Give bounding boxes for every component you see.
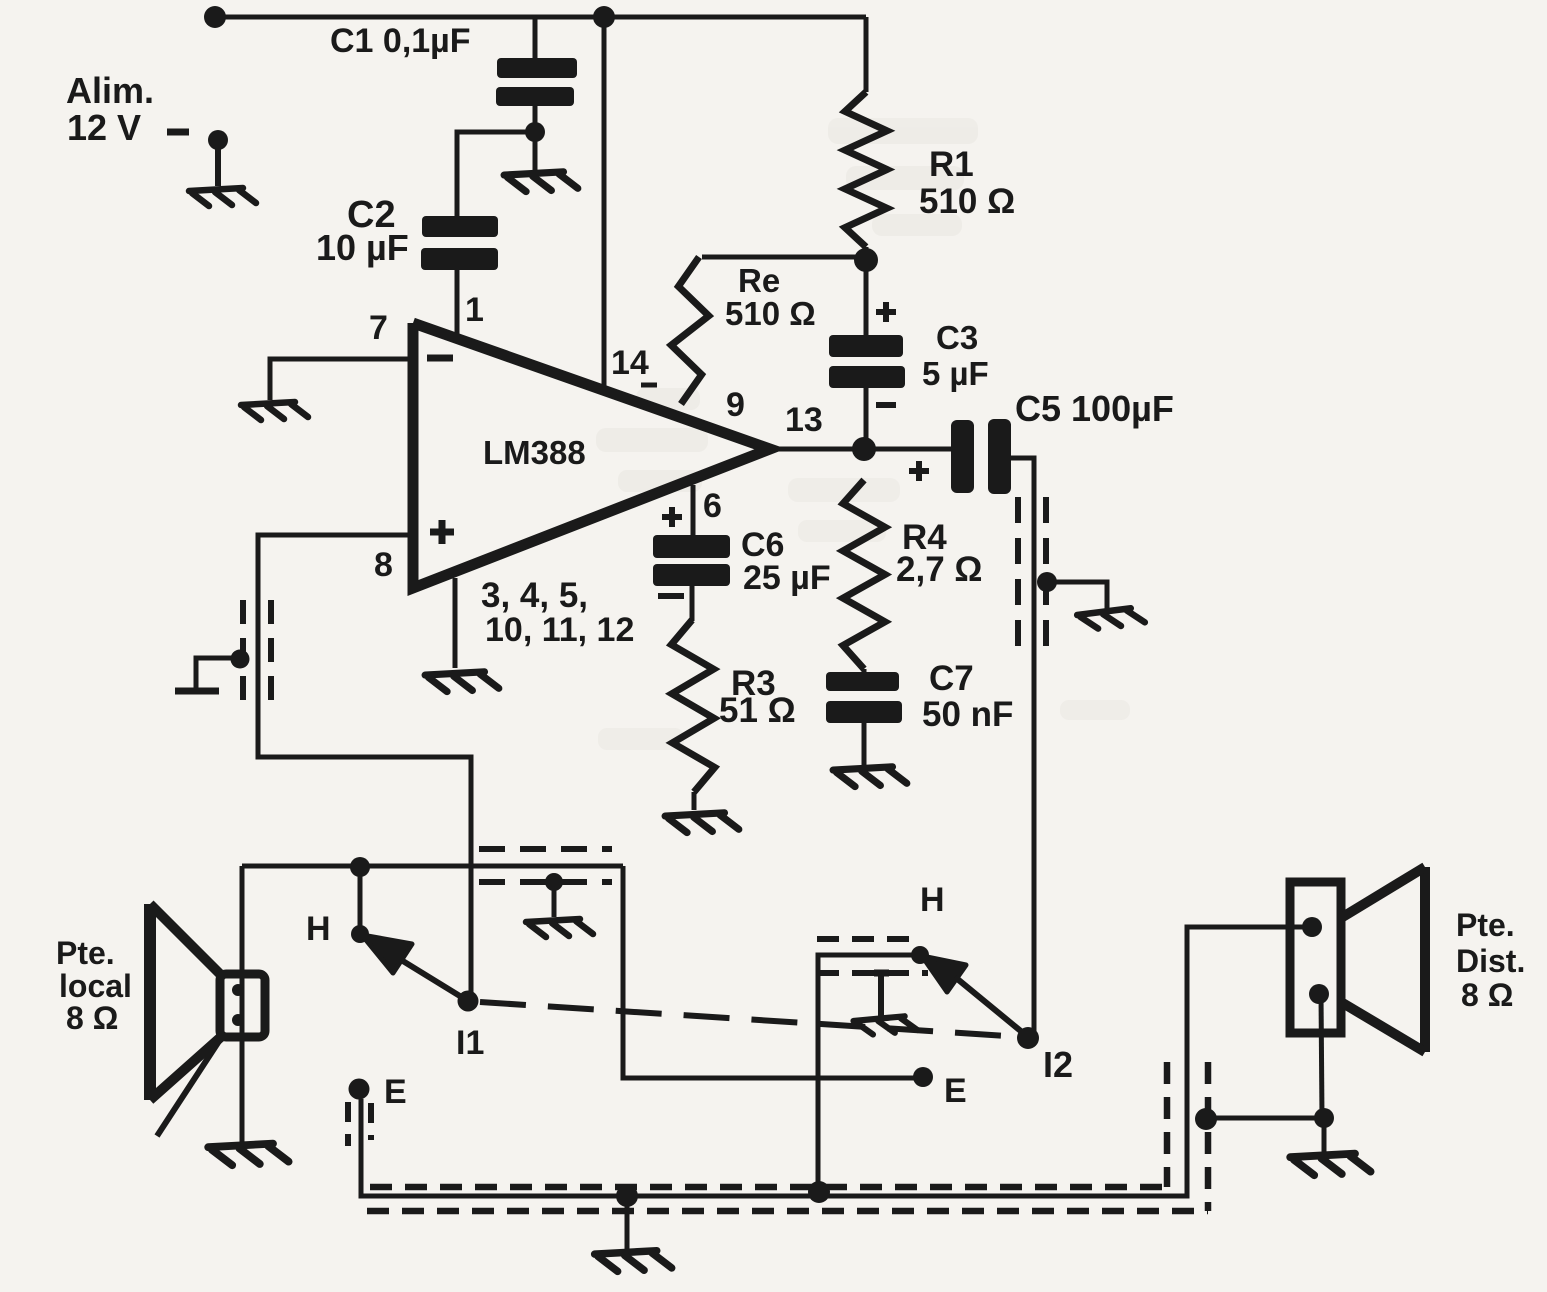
svg-text:Pte.: Pte. <box>56 935 115 971</box>
diagonal lead (left speaker) <box>157 1032 225 1136</box>
svg-text:Re: Re <box>738 262 780 299</box>
ground (C1) <box>504 172 578 192</box>
shield dashes (C5 cable) <box>1015 497 1021 648</box>
wire C1 to C2 <box>457 132 535 217</box>
svg-text:2,7 Ω: 2,7 Ω <box>896 550 982 589</box>
speaker rail <box>242 864 623 869</box>
svg-text:I2: I2 <box>1043 1044 1073 1085</box>
capacitor C2 <box>422 216 498 237</box>
svg-text:C1 0,1µF: C1 0,1µF <box>330 22 471 60</box>
terminal E (left) <box>349 1079 370 1100</box>
wire right speaker bottom <box>1321 994 1322 1118</box>
resistor R1 <box>864 17 869 92</box>
resistor Re <box>671 257 709 404</box>
svg-text:I1: I1 <box>456 1024 484 1062</box>
wire pin 1 <box>455 270 460 342</box>
svg-text:Dist.: Dist. <box>1456 943 1525 979</box>
ground bus cable <box>361 927 1312 1196</box>
wire rail to E row <box>623 866 923 1078</box>
svg-text:51 Ω: 51 Ω <box>719 691 796 730</box>
ground (pins 3..12) <box>425 672 499 692</box>
resistor R3 <box>671 620 714 792</box>
svg-text:E: E <box>944 1072 967 1110</box>
op-amp U1 LM388 <box>413 323 770 588</box>
svg-text:9: 9 <box>726 386 745 424</box>
ground (C7) <box>833 767 907 787</box>
dashed link I1 to I2 <box>480 1002 1022 1037</box>
svg-text:LM388: LM388 <box>483 434 586 471</box>
shield ground tap (C5 cable) <box>1037 572 1057 592</box>
terminal + (Alim) <box>204 6 226 28</box>
svg-text:C3: C3 <box>936 319 978 356</box>
power rail +12V <box>215 15 866 20</box>
svg-text:5 µF: 5 µF <box>922 355 989 392</box>
svg-text:10, 11, 12: 10, 11, 12 <box>485 611 634 649</box>
terminal E (right) <box>913 1067 933 1087</box>
junction + ground (right speaker) <box>1314 1108 1334 1128</box>
wire left speaker to ground <box>240 866 245 1142</box>
shield ground tap (rail right) <box>545 873 563 891</box>
speaker Pte. Dist. <box>1290 882 1341 1033</box>
svg-text:510 Ω: 510 Ω <box>919 182 1015 221</box>
svg-text:C5 100µF: C5 100µF <box>1015 388 1174 429</box>
junction (speaker / shield) <box>1195 1108 1217 1130</box>
wire pin 8 <box>258 535 471 998</box>
stray mark <box>641 383 657 388</box>
svg-text:1: 1 <box>465 291 484 329</box>
junction (switch 1 feed) <box>350 857 370 877</box>
wire node to Re <box>702 255 866 260</box>
shield ground tap (pin 8 cable) <box>231 650 250 669</box>
ground (left speaker) <box>208 1144 288 1166</box>
wire pins 3,4,5,10,11,12 <box>453 578 458 668</box>
svg-text:14: 14 <box>611 344 649 382</box>
svg-text:8 Ω: 8 Ω <box>1461 977 1513 1013</box>
node (C1 bottom) <box>525 122 545 142</box>
svg-text:H: H <box>920 881 945 919</box>
resistor R4 <box>843 480 885 669</box>
switch I1 <box>358 867 363 934</box>
wire pin 7 <box>270 359 413 400</box>
junction (pin14 wire on rail) <box>593 6 615 28</box>
wire output (pin 13 to C5) <box>770 447 951 452</box>
svg-text:50 nF: 50 nF <box>922 695 1013 734</box>
svg-text:Pte.: Pte. <box>1456 907 1515 943</box>
junction (bus / switch 2) <box>808 1181 830 1203</box>
wire pin 14 <box>602 17 607 388</box>
shield dashes (pin 8 cable) <box>240 600 246 712</box>
svg-text:R1: R1 <box>929 145 974 184</box>
node (R1 / Re / C3) <box>854 248 878 272</box>
junction + ground (bus) <box>616 1185 638 1207</box>
speaker Pte. local <box>144 904 156 1100</box>
svg-text:10 µF: 10 µF <box>316 227 409 268</box>
capacitor C1 <box>533 17 538 59</box>
svg-text:510 Ω: 510 Ω <box>725 295 816 332</box>
svg-text:local: local <box>59 968 132 1004</box>
switch I2 <box>818 955 920 1192</box>
svg-text:8 Ω: 8 Ω <box>66 1000 118 1036</box>
svg-text:13: 13 <box>785 401 823 439</box>
capacitor C6 <box>691 485 696 536</box>
capacitor C3 <box>864 260 869 336</box>
node 13 (output) <box>852 437 876 461</box>
svg-text:25 µF: 25 µF <box>743 559 831 597</box>
ground (switch 2 shield) <box>874 970 889 977</box>
wire C5 output <box>1011 458 1034 1036</box>
svg-text:12 V: 12 V <box>67 107 141 148</box>
capacitor C7 <box>862 669 867 673</box>
terminal - (Alim) <box>167 129 189 136</box>
ground (pin 7) <box>241 402 308 420</box>
svg-text:H: H <box>306 910 331 948</box>
shield dashes (switch 2) <box>817 936 920 942</box>
ground (Alim) <box>189 188 256 206</box>
capacitor C5 <box>951 420 974 493</box>
shield dashes (ground bus) <box>345 1102 351 1146</box>
svg-text:C7: C7 <box>929 659 974 698</box>
ground (R3) <box>665 813 739 833</box>
shield dashes (rail right) <box>479 846 612 852</box>
svg-text:6: 6 <box>703 487 722 525</box>
svg-text:8: 8 <box>374 546 393 584</box>
svg-text:Alim.: Alim. <box>66 70 154 111</box>
svg-text:E: E <box>384 1073 407 1111</box>
wire C1 bottom to ground <box>533 132 538 170</box>
svg-text:3, 4, 5,: 3, 4, 5, <box>481 576 588 615</box>
svg-text:7: 7 <box>369 309 388 347</box>
